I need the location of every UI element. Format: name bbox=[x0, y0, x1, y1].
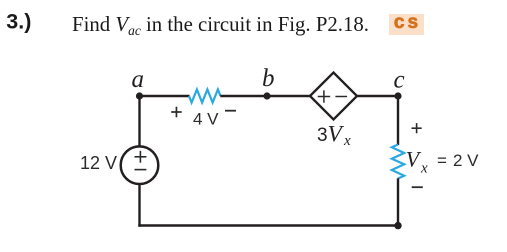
minus sign inside dependent source bbox=[335, 96, 347, 98]
problem number label "3.)" bbox=[6, 10, 31, 34]
voltage source V1 (12 V) bbox=[121, 146, 159, 184]
plus sign inside dependent source bbox=[318, 90, 331, 102]
svg-text:3: 3 bbox=[317, 125, 328, 146]
resistor R2 (Vx = 2 V, vertical) bbox=[392, 145, 404, 179]
node b label bbox=[262, 65, 275, 92]
wire: resistor R2 down to bottom-right corner bbox=[397, 178, 399, 226]
minus sign inside source V1 bbox=[135, 169, 147, 171]
value label 4 V bbox=[193, 110, 219, 129]
svg-text:Find Vac in the circuit in Fig: Find Vac in the circuit in Fig. P2.18. bbox=[72, 13, 369, 38]
CS badge bbox=[389, 12, 424, 35]
label 3Vx bbox=[317, 121, 351, 149]
svg-text:=: = bbox=[437, 151, 447, 170]
wire: resistor R1 through node b to dependent source bbox=[220, 95, 311, 97]
svg-text:a: a bbox=[132, 66, 145, 93]
node c bbox=[394, 92, 401, 99]
junction node at bottom-right bbox=[394, 222, 401, 229]
svg-text:x: x bbox=[420, 161, 428, 177]
label Vx = 2 V bbox=[406, 146, 479, 176]
svg-text:3.): 3.) bbox=[6, 10, 31, 34]
node a bbox=[136, 92, 143, 99]
svg-text:4 V: 4 V bbox=[193, 110, 219, 129]
wire: voltage source V1 down to bottom-left corner bbox=[138, 184, 140, 227]
node b bbox=[263, 92, 270, 99]
resistor R1 (4 V resistor between a and b) bbox=[189, 90, 221, 103]
value label 12 V bbox=[80, 153, 117, 173]
svg-text:b: b bbox=[262, 65, 275, 92]
svg-text:cs: cs bbox=[394, 12, 421, 33]
wire: bottom return wire bbox=[138, 224, 398, 226]
polarity minus for Vx bbox=[412, 186, 423, 188]
polarity plus for Vx bbox=[412, 123, 422, 133]
wire: node a to resistor R1 bbox=[140, 95, 190, 97]
svg-text:c: c bbox=[394, 67, 405, 94]
problem statement text bbox=[72, 13, 369, 38]
wire: node c down to resistor R2 bbox=[397, 95, 399, 145]
plus sign inside source V1 bbox=[135, 151, 147, 163]
wire: node a down to voltage source V1 bbox=[138, 95, 140, 147]
dependent source U1 (diamond 3Vx) bbox=[310, 73, 357, 120]
wire: dependent source to node c bbox=[356, 95, 398, 97]
svg-text:2 V: 2 V bbox=[453, 151, 479, 170]
svg-text:12 V: 12 V bbox=[80, 153, 117, 173]
polarity minus for 4 V bbox=[225, 110, 236, 112]
node a label bbox=[132, 66, 145, 93]
node c label bbox=[394, 67, 405, 94]
polarity plus for 4 V bbox=[171, 107, 182, 118]
svg-text:x: x bbox=[343, 133, 351, 149]
